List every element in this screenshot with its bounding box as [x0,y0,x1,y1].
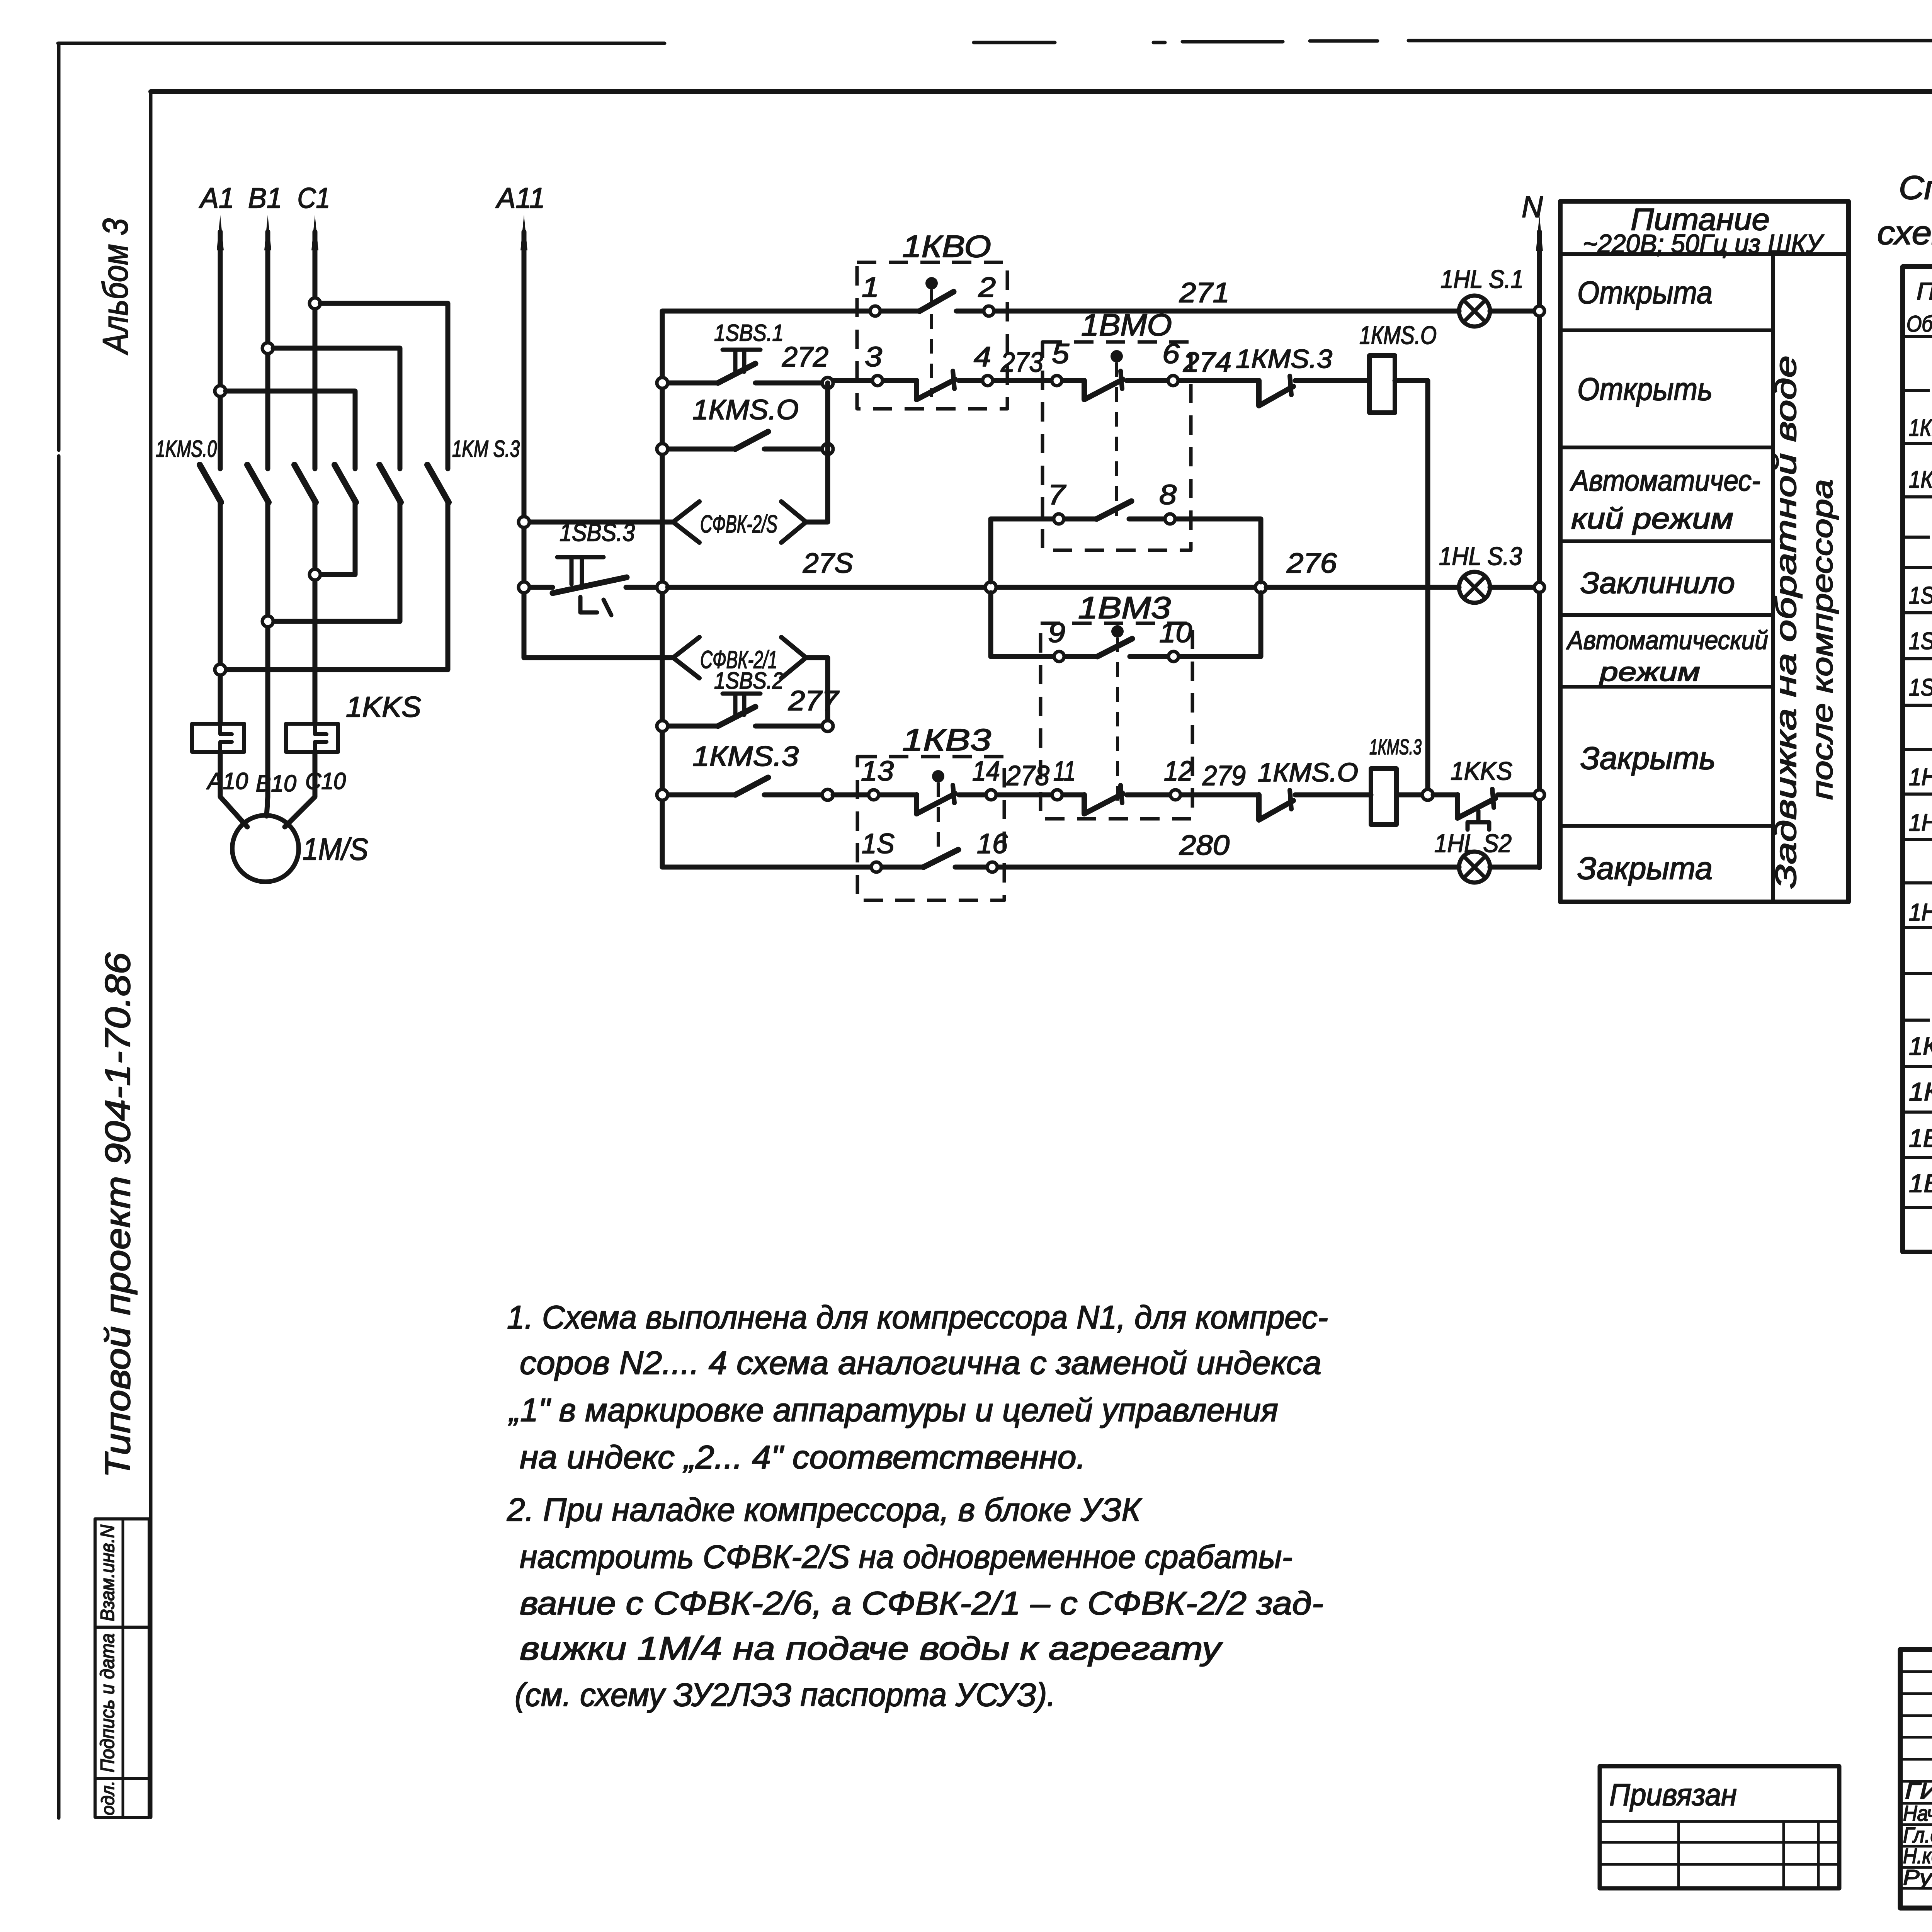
terminal 10 [1168,651,1179,662]
1VMO actuator dot [1111,350,1123,362]
thermal heater 1KKS phase C [286,724,338,752]
svg-text:1КМS.3: 1КМS.3 [1236,344,1332,374]
wire contact6 down to A phase [226,502,448,670]
svg-text:1KKS: 1KKS [346,691,421,723]
terminal 1 [870,306,880,316]
svg-text:276: 276 [1286,548,1337,579]
contactor 1KMS.3 main contact 1 [335,465,356,502]
wire B10 to motor [267,797,268,816]
wire line 280 [662,865,1539,870]
node N rail 276 [1534,582,1544,592]
svg-text:2. При наладке компрессора,: 2. При наладке компрессора, в блоке УЗК [507,1492,1142,1528]
thermal heater 1KKS phase A [192,724,244,752]
chevron SFVK-2/5 [673,502,806,543]
contactor 1KMS.3 main contact 3 [427,465,449,502]
svg-text:режим: режим [1599,657,1700,687]
node crossover to A [215,664,226,675]
svg-text:1ВМО: 1ВМО [1081,308,1172,342]
signature grid rows [1900,1672,1932,1888]
contact 5-6 of 1VMO [1084,379,1123,400]
wire line 277-279 [833,793,1371,798]
svg-text:1S: 1S [862,828,895,859]
terminal 5 [1052,376,1062,386]
svg-text:Заклинило: Заклинило [1580,566,1735,600]
node bus 1SBS.2 [657,721,668,731]
wire SFVK-2/1 line [524,658,828,726]
terminal 9 [1054,651,1064,662]
svg-text:272: 272 [782,342,828,372]
button 1SBS.3 [529,585,657,590]
svg-text:Н.контр.: Н.контр. [1903,1844,1932,1868]
svg-text:1КМS.O: 1КМS.O [1909,415,1932,441]
svg-text:274: 274 [1183,347,1231,378]
valve drive box 1VM3 [1041,623,1192,819]
svg-text:Нач.отд: Нач.отд [1903,1801,1932,1825]
svg-text:3: 3 [865,342,882,372]
svg-text:1КМS.3: 1КМS.3 [1369,735,1422,759]
svg-text:1SBS.3: 1SBS.3 [560,519,635,546]
svg-text:Задвижка на обратной воде: Задвижка на обратной воде [1770,355,1803,889]
svg-text:1SBS.1: 1SBS.1 [714,320,784,346]
terminal 14 [986,790,996,800]
node 275 right branch [1255,582,1266,593]
svg-text:1ВМ3: 1ВМ3 [1909,1169,1932,1197]
terminal 8 [1165,514,1175,524]
svg-text:1КМS.O: 1КМS.O [1359,321,1437,349]
svg-text:1KMS.0: 1KMS.0 [156,436,217,462]
svg-text:Спецификация принципиальной: Спецификация принципиальной электрическо… [1899,169,1932,206]
svg-text:C1: C1 [298,182,330,214]
feed table row rules [1560,330,1773,826]
svg-text:1SВS.3: 1SВS.3 [1909,674,1932,701]
svg-text:1SBS.2: 1SBS.2 [714,668,784,694]
contactor 1KMS.3 main contact 2 [379,465,401,502]
svg-text:A10: A10 [206,768,248,794]
wire line 275 [668,585,1255,590]
svg-text:280: 280 [1179,830,1230,861]
svg-text:A1: A1 [199,182,234,214]
svg-text:1KKS: 1KKS [1451,757,1512,785]
svg-text:10: 10 [1159,617,1192,648]
svg-text:273: 273 [1000,347,1043,378]
svg-text:1КВО: 1КВО [902,229,991,264]
svg-text:1КВ3: 1КВ3 [902,723,991,757]
wire rail A11 [522,232,527,658]
wire rail A1 [218,232,223,724]
feed table frame [1560,201,1849,902]
terminal 13 [869,790,879,800]
svg-text:1SВS.2: 1SВS.2 [1909,628,1932,655]
contact NC 1KMS.O [1259,795,1293,820]
inner frame top line [151,89,1932,94]
terminal 16 [987,862,997,872]
svg-text:схемы управления задвижкой: схемы управления задвижкой на обратной в… [1877,214,1932,252]
svg-text:1НLS.1: 1НLS.1 [1909,764,1932,791]
1KV3 actuator dot [932,770,944,782]
wire A1 branch to contact 4 [226,391,355,469]
node right 1KMS.3 aux [822,789,833,800]
privyazan col rules [1679,1821,1818,1888]
privyazan header rule [1600,1820,1839,1823]
limit switch box 1KVO [857,262,1007,409]
svg-text:Рук.гр: Рук.гр [1903,1865,1932,1889]
terminal 4 [983,376,993,386]
svg-text:Альбом 3: Альбом 3 [96,218,135,355]
1VM3 actuator stem [1116,638,1119,811]
SECTION:CONTROL [519,190,1544,900]
svg-text:Подпись и дата: Подпись и дата [97,1633,118,1772]
terminal 15 [871,862,881,872]
lamp 1HLS.3 [1459,572,1490,603]
sheet outer top border [58,41,1932,43]
svg-text:Открыть: Открыть [1577,372,1713,407]
svg-text:277: 277 [788,685,840,716]
svg-text:5: 5 [1052,338,1070,369]
svg-text:B1: B1 [248,182,282,214]
wire line 272-274 [833,378,1369,383]
node 272 [822,378,833,388]
phase rail C1 arrow [311,215,318,250]
1KV3 actuator stem [937,782,940,853]
SECTION:POWER [156,182,545,882]
svg-text:соров N2.... 4 схема анало: соров N2.... 4 схема аналогична с замено… [520,1345,1321,1381]
contact 7-8 branch [991,519,1261,582]
SECTION:PTABLE [1560,201,1849,902]
lamp 1HLS.1 [1459,296,1490,327]
terminal 12 [1170,790,1180,800]
contact 11-12 of 1VM3 [1084,794,1123,814]
svg-text:~220В; 50Гц из ШКУ: ~220В; 50Гц из ШКУ [1583,229,1825,259]
left margin stamp box Подпись и дата [95,1627,149,1779]
svg-text:1КМS.3: 1КМS.3 [1909,466,1932,493]
svg-text:N: N [1522,190,1543,224]
coil 1KMS.3 [1371,769,1396,825]
phase rail B1 arrow [264,215,271,250]
wire SFVK-2/5 line [529,520,828,525]
svg-text:1HL S2: 1HL S2 [1434,829,1512,857]
privyazan table frame [1600,1766,1839,1888]
svg-text:одл.: одл. [98,1781,118,1815]
svg-text:1КМS.O: 1КМS.O [692,395,799,425]
node N rail 1KKS [1534,790,1544,800]
wire coil output down [1395,381,1428,789]
contact NC 1KMS.3 [1259,381,1293,406]
spec dashed rules [1903,390,1932,1020]
svg-text:вижки 1М/4 на подаче воды: вижки 1М/4 на подаче воды к агрегату [520,1630,1223,1667]
spec table frame [1903,267,1932,1252]
wire line 271 [662,309,1534,314]
svg-text:1ВМО;: 1ВМО; [1909,1124,1932,1152]
wire C10 to motor [285,752,315,827]
svg-text:кий режим: кий режим [1571,502,1733,535]
contact 3-4 of 1KVO [917,379,955,400]
svg-text:ГИП: ГИП [1905,1779,1932,1804]
coil 1KMS.O [1369,355,1395,413]
thermal contact 1KKS [1433,793,1534,798]
svg-text:на индекс „2... 4" соответс: на индекс „2... 4" соответственно. [520,1439,1086,1475]
svg-text:Открыта: Открыта [1577,275,1713,310]
wire vertical 272 branch [825,383,830,522]
spec row rules [1903,444,1932,1207]
svg-text:Типовой проект 904-1-70.86: Типовой проект 904-1-70.86 [98,952,138,1478]
SECTION:SPEC [1877,169,1932,1252]
node A11 1SBS.3 [519,582,529,593]
contactor 1KMS.0 main contact phase C [294,465,316,502]
svg-text:2: 2 [978,272,996,303]
svg-text:278: 278 [1006,760,1049,791]
svg-text:после компрессора: после компрессора [1806,479,1839,800]
svg-text:Закрыть: Закрыть [1580,741,1716,776]
N rail arrow [1536,215,1543,251]
svg-text:Взам.инв.N: Взам.инв.N [97,1524,118,1621]
valve drive box 1VMO [1043,342,1191,550]
motor 1M/S circle [232,815,299,882]
svg-text:1НLS.3: 1НLS.3 [1909,899,1932,926]
svg-text:1HL S.1: 1HL S.1 [1440,265,1524,293]
1KVO actuator stem [930,289,933,397]
svg-text:1НLS.2: 1НLS.2 [1909,810,1932,836]
svg-text:7: 7 [1048,480,1066,510]
svg-text:СФВК-2/S: СФВК-2/S [700,510,777,538]
node 275 left branch [985,582,996,593]
svg-text:13: 13 [861,756,894,787]
contact 15-16 of 1KV3 [923,850,958,867]
svg-text:Привязан: Привязан [1609,1777,1737,1812]
svg-text:16: 16 [977,828,1008,859]
terminal 7 [1054,514,1064,524]
limit switch box 1KV3 [857,757,1004,900]
svg-text:1КВ3;: 1КВ3; [1909,1077,1932,1106]
svg-text:вание с СФВК-2/6, а СФВК-2: вание с СФВК-2/6, а СФВК-2/1 – с СФВК-2/… [520,1585,1323,1621]
button 1SBS.2 [668,724,822,729]
privyazan row rules [1600,1842,1839,1864]
svg-text:11: 11 [1053,756,1076,787]
feed table inner vertical [1771,254,1775,902]
wire coil 1KMS.3 output [1396,793,1422,798]
contact 9-10 branch [991,593,1261,656]
svg-text:1: 1 [862,272,879,303]
feed table header rule [1560,252,1849,256]
left margin stamp box Взам.инв [95,1519,149,1627]
title block outer [1900,1650,1932,1908]
wire B1 branch to contact 5 [273,348,400,469]
svg-text:Автоматичес-: Автоматичес- [1570,464,1760,497]
contact 1KMS.3 aux [668,793,822,798]
wire rail B1 [265,232,270,797]
svg-text:Обознач.: Обознач. [1906,311,1932,337]
svg-text:1M/S: 1M/S [303,832,368,866]
contactor 1KMS.0 main contact phase A [200,465,221,502]
svg-text:Поз.: Поз. [1917,278,1932,305]
1VMO actuator stem [1115,362,1118,516]
svg-text:1HL S.3: 1HL S.3 [1439,542,1522,570]
terminal 2 [984,306,994,316]
svg-text:1КВО;: 1КВО; [1909,1032,1932,1060]
svg-text:14: 14 [972,756,1000,787]
wire C1 branch to contact 6 [320,303,448,469]
terminal 3 [872,376,883,386]
node 277 [822,721,833,731]
svg-text:настроить СФВК-2/S на одновр: настроить СФВК-2/S на одновременное сраб… [520,1539,1293,1575]
svg-text:8: 8 [1159,480,1177,510]
svg-text:Закрыта: Закрыта [1577,851,1713,886]
limit switch 1KVO contact 1-2 blade [920,292,954,311]
svg-text:(см. схему ЗУ2ЛЭЗ паспорта: (см. схему ЗУ2ЛЭЗ паспорта УСУЗ). [515,1677,1056,1713]
svg-text:4: 4 [974,342,991,372]
phase rail A11 arrow [520,215,527,250]
node bus 1KMS.0 aux [657,444,668,454]
svg-text:271: 271 [1179,277,1230,308]
contactor 1KMS.0 main contact phase B [247,465,269,502]
contact 1KMS.0 aux [668,447,822,452]
svg-text:A11: A11 [495,182,545,214]
node bus 275 [657,582,668,593]
sheet outer left border [57,43,61,1818]
svg-text:1SВS.1: 1SВS.1 [1909,582,1932,609]
svg-text:1КМS.O: 1КМS.O [1258,758,1358,787]
lamp 1HLS.2 [1459,852,1490,883]
contact 13-14 of 1KV3 [917,794,955,814]
inner frame left line [149,92,153,1817]
node on A1 to reverser [215,386,226,396]
node crossover to C [310,569,320,580]
node coils junction [1422,789,1433,800]
terminal 11 [1052,790,1062,800]
wire rail C1 [313,232,318,724]
node on B1 to reverser [262,343,273,354]
svg-text:27S: 27S [803,548,853,579]
wire N rail [1537,232,1542,867]
svg-text:1KM S.3: 1KM S.3 [452,436,520,462]
svg-text:6: 6 [1162,338,1180,369]
svg-text:1. Схема выполнена для комп: 1. Схема выполнена для компрессора N1, д… [507,1299,1328,1335]
spec header rule [1903,335,1932,338]
svg-text:Автоматический: Автоматический [1566,626,1768,655]
terminal 6 [1168,376,1178,386]
svg-text:12: 12 [1164,756,1193,787]
svg-text:C10: C10 [305,768,346,794]
svg-text:1ВМ3: 1ВМ3 [1078,590,1171,625]
chevron SFVK-2/1 [673,637,806,678]
wire control bus left [660,311,665,867]
node N rail 271 [1534,306,1544,316]
svg-text:9: 9 [1048,617,1065,648]
1VM3 actuator dot [1111,625,1124,638]
SECTION:NOTES [507,1299,1328,1713]
button 1SBS.1 [668,381,822,386]
left margin stamp box Инв. подл [95,1779,149,1817]
wire contact5 down to B phase [273,502,400,621]
wire contact4 down to C phase [320,502,355,575]
svg-text:B10: B10 [256,770,296,796]
node right 1KMS.0 aux [822,444,833,454]
svg-text:279: 279 [1202,760,1246,791]
SECTION:LEFTMARGIN [95,218,149,1817]
svg-text:„1" в маркировке аппаратуры: „1" в маркировке аппаратуры и целей упра… [508,1392,1278,1428]
wire line 276 [1266,585,1534,590]
svg-text:1КМS.3: 1КМS.3 [692,741,799,772]
phase rail A1 arrow [217,215,224,250]
node on C1 to reverser [310,298,320,309]
SECTION:TBLOCK [1600,1502,1932,1909]
node bus 1SBS.1 [657,378,668,388]
wire A10 to motor [220,752,247,827]
node A11 SFVK-2/5 [519,517,529,527]
node crossover to B [262,616,273,627]
node bus 1KMS.3 aux [657,789,668,800]
1KVO actuator dot [925,277,938,289]
